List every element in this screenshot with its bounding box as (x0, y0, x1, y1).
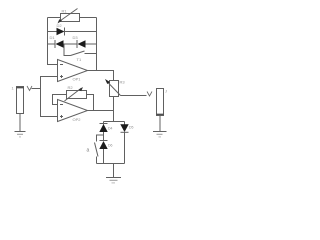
diode D5 (right, pointing down) (120, 122, 128, 164)
wire ladder right rail (96, 18, 98, 71)
svg-text:R1: R1 (62, 9, 68, 14)
svg-text:D4: D4 (108, 127, 113, 131)
switch T1 (bypassing D3) (64, 44, 97, 56)
svg-text:D5: D5 (129, 126, 134, 130)
svg-text:D2: D2 (57, 23, 63, 28)
ground (right) (153, 132, 167, 137)
svg-text:D1: D1 (50, 35, 56, 40)
wire OP1 + input rail (41, 77, 58, 117)
node V (left) (27, 86, 32, 91)
wire OP1 output (88, 71, 114, 81)
resistor R1 (variable, top rung) (48, 9, 97, 24)
wire clamp ground drop (113, 164, 115, 178)
wire OP2 output (88, 110, 114, 112)
op-amp OP2 (58, 100, 88, 122)
diode D3 (third rung right, pointing left) (77, 40, 97, 48)
diode D4 (left top, pointing up) (99, 122, 107, 141)
wire left pot to ground (19, 114, 21, 132)
wire clamp bottom bus (97, 163, 125, 165)
svg-text:OP1: OP1 (73, 77, 82, 82)
svg-text:OP2: OP2 (73, 117, 82, 122)
diode D2 (second rung, pointing right) (48, 28, 97, 36)
diode D6 (left bottom, pointing up) (99, 141, 107, 164)
potentiometer RP (left input) (17, 87, 24, 114)
wire right load to ground (159, 116, 161, 132)
svg-text:T1: T1 (77, 57, 82, 62)
op-amp OP1 (58, 60, 88, 82)
ground (left) (15, 132, 26, 137)
wire ladder left rail (48, 18, 58, 65)
ground (clamp) (106, 178, 121, 183)
svg-text:J: J (165, 89, 167, 94)
potentiometer R3 (output divider) (105, 79, 121, 122)
diode D1 (third rung left, pointing left) (48, 40, 78, 48)
svg-text:R3: R3 (120, 80, 126, 85)
svg-text:R2: R2 (68, 85, 74, 90)
wire clamp top bus (104, 121, 125, 123)
wire R3 wiper to output (121, 95, 147, 97)
galvanometer J (right load) (157, 89, 164, 116)
switch a (bypassing D6) (95, 135, 104, 164)
resistor R2 (OP2 feedback, variable) (53, 87, 94, 111)
svg-text:a: a (87, 148, 90, 154)
svg-text:D6: D6 (108, 144, 113, 148)
svg-text:D3: D3 (73, 35, 79, 40)
wire input stub with V arrow (32, 88, 41, 90)
node V (right) (147, 92, 152, 97)
